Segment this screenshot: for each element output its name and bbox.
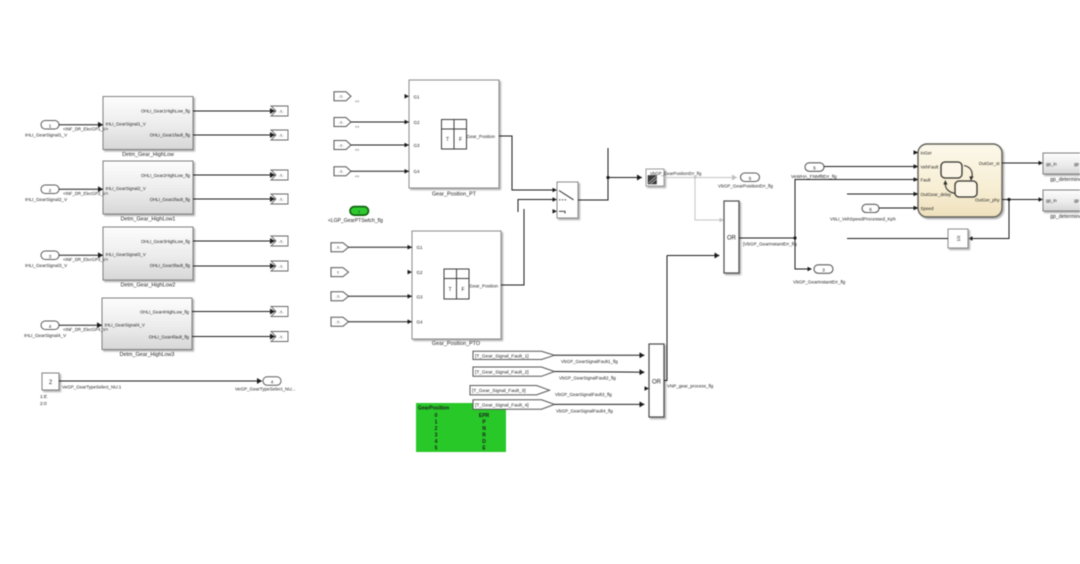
wire PTO G3	[349, 295, 413, 297]
svg-text:IHLI_GearSignal1_V: IHLI_GearSignal1_V	[106, 122, 146, 127]
svg-text:G2: G2	[417, 270, 424, 275]
wire inport3 to block3	[59, 255, 109, 262]
svg-text:GearPosition: GearPosition	[418, 406, 449, 412]
wire inport5 to chart VehFault	[824, 166, 914, 168]
state 1	[941, 162, 962, 178]
wire OR1 out	[739, 180, 914, 272]
svg-text:IHLI_GearSignal3_V: IHLI_GearSignal3_V	[25, 263, 68, 268]
svg-text:4: 4	[49, 324, 52, 329]
svg-text:-T-: -T-	[336, 294, 342, 299]
wire Gear_Position_PT out to switch in1	[499, 136, 553, 190]
svg-text:Detm_Gear_HighLow: Detm_Gear_HighLow	[122, 152, 174, 158]
svg-text:-T-: -T-	[279, 239, 285, 244]
svg-text:gp_determine: gp_determine	[1050, 177, 1080, 183]
svg-text:Detm_Gear_HighLow2: Detm_Gear_HighLow2	[121, 283, 176, 289]
wire block2 out2	[193, 198, 275, 200]
svg-text:N: N	[482, 426, 486, 432]
svg-text:-T-: -T-	[279, 310, 285, 315]
svg-text:VbGP_GearSignalFault2_flg: VbGP_GearSignalFault2_flg	[559, 376, 616, 381]
svg-text:[T_Gear_Signal_Fault_1]: [T_Gear_Signal_Fault_1]	[475, 353, 529, 359]
svg-text:1/z: 1/z	[956, 235, 961, 242]
svg-text:G4: G4	[414, 169, 421, 174]
wire fault1 to OR2	[555, 355, 645, 364]
subsystem Gear_Position_PTO	[412, 231, 501, 347]
svg-text:-T-: -T-	[279, 335, 285, 340]
subsystem Detm_Gear_HighLow1	[103, 161, 193, 223]
svg-text:<INF_DR_ElecGP4_V>: <INF_DR_ElecGP4_V>	[63, 327, 109, 332]
wire chart OutGer_phy to gp block2	[1002, 199, 1039, 201]
wire OutGear_delay into chart	[847, 193, 914, 195]
signal conversion block	[646, 169, 702, 186]
svg-text:IHLI_GearSignal2_V: IHLI_GearSignal2_V	[106, 186, 146, 191]
svg-text:<>: <>	[355, 148, 359, 152]
svg-text:VbGP_GearPositionErr_flg: VbGP_GearPositionErr_flg	[650, 171, 702, 176]
wire chart OutGer_st to gp block1	[1002, 162, 1039, 164]
svg-text:1:E: 1:E	[40, 394, 47, 400]
junction	[606, 176, 609, 179]
wire block4 out1	[192, 311, 275, 313]
from tag T (PTO G1)	[331, 243, 349, 252]
svg-text:Detm_Gear_HighLow1: Detm_Gear_HighLow1	[121, 217, 176, 223]
svg-text:InGer: InGer	[921, 151, 933, 156]
goto tag T (b2 out2)	[271, 194, 288, 204]
unit delay 1/z (flipped)	[948, 229, 968, 248]
goto tag T (b2 out1)	[271, 170, 288, 180]
icon inside Gear_Position_PTO	[444, 269, 469, 299]
wire block4 out2	[192, 336, 275, 338]
state 2	[955, 181, 977, 197]
svg-text:<LGP_GearPTSwtch_flg: <LGP_GearPTSwtch_flg	[328, 218, 383, 224]
svg-text:G1: G1	[417, 245, 424, 250]
wire fault2 to OR2	[555, 372, 645, 381]
svg-text:1: 1	[435, 420, 438, 426]
svg-text:VeWHA_FNMfltErr_flg: VeWHA_FNMfltErr_flg	[791, 174, 837, 179]
from tag T_Gear_Signal_Fault_1	[473, 351, 555, 359]
from tag T (PTO G2, unwired)	[331, 268, 349, 277]
from tag T (PT G2)	[334, 118, 359, 130]
wire PTO G4	[349, 321, 413, 323]
svg-text:R: R	[482, 433, 486, 439]
from tag T (PT G3)	[334, 141, 359, 153]
wire block3 out1	[193, 240, 275, 242]
wire inport4 to block4	[59, 325, 109, 332]
svg-text:Gear_Position_PT: Gear_Position_PT	[432, 192, 477, 198]
subsystem gp_determine 1	[1043, 153, 1080, 183]
svg-text:VNP_gear_process_flg: VNP_gear_process_flg	[667, 384, 714, 389]
svg-text:gp_determine: gp_determine	[1050, 214, 1080, 220]
wire fault4 to OR2	[555, 404, 645, 413]
svg-text:OHLI_Gear2HighLow_flg: OHLI_Gear2HighLow_flg	[141, 173, 191, 178]
svg-text:gp: gp	[1074, 198, 1079, 203]
svg-text:Speed: Speed	[921, 206, 935, 211]
svg-text:VbGP_GearSignalFault4_flg: VbGP_GearSignalFault4_flg	[556, 409, 613, 414]
svg-text:OR: OR	[652, 380, 662, 386]
svg-text:gp_in: gp_in	[1046, 198, 1057, 203]
svg-text:F: F	[461, 287, 464, 293]
svg-text:3: 3	[49, 254, 52, 259]
svg-text:IHLI_GearSignal1_V: IHLI_GearSignal1_V	[25, 133, 68, 138]
wire to OR1 lower input	[667, 255, 720, 257]
svg-text:OHLI_Gear3HighLow_flg: OHLI_Gear3HighLow_flg	[141, 239, 191, 244]
logical operator OR2	[645, 344, 714, 417]
svg-text:1: 1	[49, 123, 52, 128]
svg-text:<INF_DR_ElecGP3_V>: <INF_DR_ElecGP3_V>	[63, 257, 109, 262]
svg-text:-T-: -T-	[336, 245, 342, 250]
svg-text:OHLI_Gear2fault_flg: OHLI_Gear2fault_flg	[150, 197, 191, 202]
svg-text:G3: G3	[414, 143, 421, 148]
icon inside Gear_Position_PT	[442, 120, 467, 150]
svg-text:VbGP_GearSignalFault3_flg: VbGP_GearSignalFault3_flg	[555, 392, 612, 397]
svg-text:-T-: -T-	[339, 120, 345, 125]
svg-text:gp: gp	[1074, 161, 1079, 166]
svg-text:<>: <>	[355, 175, 359, 179]
faded junction	[694, 176, 697, 179]
inport 5 VeWHA_FNMfltErr	[791, 163, 837, 179]
svg-text:OutGear_delay: OutGear_delay	[921, 192, 952, 197]
svg-text:VbGP_GearPositionErr_flg: VbGP_GearPositionErr_flg	[718, 184, 773, 189]
svg-text:Gear_Position_PTO: Gear_Position_PTO	[432, 341, 480, 347]
wire PT G2	[351, 121, 409, 123]
from tag T (PT G1, unwired)	[334, 92, 359, 104]
wire OR2 out to OR1	[664, 256, 667, 381]
svg-text:[VbGP_GearInstantErr_flg: [VbGP_GearInstantErr_flg	[743, 242, 797, 247]
stateflow chart	[914, 144, 1003, 217]
svg-text:[T_Gear_Signal_Fault_2]: [T_Gear_Signal_Fault_2]	[475, 370, 529, 376]
svg-text:VtILI_VehSpeedProcessed_Kph: VtILI_VehSpeedProcessed_Kph	[830, 217, 896, 222]
svg-text:OutGer_st: OutGer_st	[979, 161, 1001, 166]
wire inport6 to chart Speed	[879, 207, 914, 209]
from tag T (PTO G3)	[331, 292, 349, 301]
svg-text:VbGP_GearInstantErr_flg: VbGP_GearInstantErr_flg	[793, 280, 846, 285]
svg-text:EPR: EPR	[479, 413, 490, 419]
svg-text:5: 5	[813, 166, 816, 171]
svg-text:5: 5	[749, 176, 752, 181]
outport 4 VeGP_GearTypeSelect	[235, 377, 296, 392]
subsystem Detm_Gear_HighLow	[103, 97, 193, 159]
svg-text:T: T	[446, 137, 449, 143]
svg-text:-T-: -T-	[339, 143, 345, 148]
svg-text:OHLI_Gear4HighLow_flg: OHLI_Gear4HighLow_flg	[140, 310, 190, 315]
goto tag T (b1 out1)	[271, 106, 288, 116]
svg-text:0: 0	[435, 413, 438, 419]
from tag T_Gear_Signal_Fault_4	[473, 400, 555, 409]
svg-text:2: 2	[49, 188, 52, 193]
svg-text:IHLI_GearSignal2_V: IHLI_GearSignal2_V	[25, 197, 68, 202]
svg-text:F: F	[459, 137, 462, 143]
svg-text:G2: G2	[414, 120, 421, 125]
svg-text:5: 5	[435, 446, 438, 452]
goto tag T (b4 out1)	[271, 307, 288, 317]
svg-text:<>: <>	[355, 100, 359, 104]
logical operator OR1	[724, 201, 739, 273]
svg-text:VeGP_GearTypeSelect_NU:1: VeGP_GearTypeSelect_NU:1	[62, 385, 122, 390]
svg-text:-T-: -T-	[279, 197, 285, 202]
wire block1 out2	[193, 134, 275, 136]
outport 3 VbGP_GearInstantErr	[793, 265, 846, 285]
svg-text:[T_Gear_Signal_Fault_3]: [T_Gear_Signal_Fault_3]	[472, 388, 526, 394]
wire PT G4	[351, 170, 409, 172]
goto tag T (b3 out1)	[271, 236, 288, 246]
svg-text:G1: G1	[414, 94, 421, 99]
wire block2 out1	[193, 174, 275, 176]
svg-text:4: 4	[271, 380, 274, 385]
inport 3 IHLI_GearSignal3_V	[25, 251, 68, 268]
svg-text:gp_in: gp_in	[1046, 161, 1057, 166]
svg-text:T: T	[448, 287, 451, 293]
svg-text:OutGer_phy: OutGer_phy	[975, 198, 1000, 203]
from tag LGP_GearPTSwtch (green)	[328, 207, 383, 224]
wire block1 out1	[193, 110, 275, 112]
svg-text:VbGP_GearSignalFault1_flg: VbGP_GearSignalFault1_flg	[561, 359, 618, 364]
svg-text:<>: <>	[355, 125, 359, 129]
svg-text:-T-: -T-	[339, 94, 345, 99]
svg-text:2: 2	[435, 426, 438, 432]
goto tag T (b4 out2)	[271, 332, 288, 342]
wire PT G3	[351, 144, 409, 146]
svg-text:[T_Gear_Signal_Fault_4]: [T_Gear_Signal_Fault_4]	[475, 402, 529, 408]
wire Gear_Position_PTO out (dangling)	[501, 209, 524, 285]
outport 5 VbGP_GearPositionErr	[718, 173, 773, 189]
from tag T_Gear_Signal_Fault_3 (unwired)	[470, 386, 612, 398]
inport 1 IHLI_GearSignal1_V	[25, 121, 68, 138]
subsystem Detm_Gear_HighLow2	[103, 227, 193, 289]
wire inport1 to block1	[59, 125, 109, 132]
wire switch out	[578, 148, 608, 200]
svg-text:G3: G3	[417, 294, 424, 299]
svg-text:OHLI_Gear1HighLow_flg: OHLI_Gear1HighLow_flg	[141, 109, 191, 114]
inport 4 IHLI_GearSignal4_V	[24, 321, 67, 338]
from tag T (PTO G4)	[331, 317, 349, 326]
port arrowheads Gear_Position_PTO	[408, 245, 413, 324]
goto tag T (b1 out2)	[271, 130, 288, 140]
wire block3 out2	[193, 265, 275, 267]
goto tag T (b3 out2)	[271, 261, 288, 271]
wire constant to outport4	[59, 381, 262, 390]
svg-text:3: 3	[822, 268, 825, 273]
feedback wire OutGer_phy to unit delay	[973, 200, 1010, 239]
svg-text:Gear_Position: Gear_Position	[467, 134, 496, 139]
svg-text:-T-: -T-	[279, 173, 285, 178]
transition arrows	[945, 166, 972, 194]
from tag T_Gear_Signal_Fault_2	[473, 367, 555, 376]
svg-text:VeGP_GearTypeSelect_NU...: VeGP_GearTypeSelect_NU...	[235, 387, 296, 392]
svg-text:OR: OR	[727, 236, 737, 242]
svg-text:OHLI_Gear4fault_flg: OHLI_Gear4fault_flg	[149, 335, 190, 340]
svg-text:Gear_Position: Gear_Position	[470, 284, 499, 289]
inport 6 VtILI_VehSpeedProcessed	[830, 204, 896, 221]
svg-text:6: 6	[869, 207, 872, 212]
wire PTO G1	[349, 246, 413, 248]
subsystem Detm_Gear_HighLow3	[102, 298, 192, 358]
from tag T (PT G4)	[334, 167, 359, 179]
constant 2	[40, 373, 59, 407]
svg-text:IHLI_GearSignal3_V: IHLI_GearSignal3_V	[106, 252, 146, 257]
port arrowheads Gear_Position_PT	[405, 94, 410, 174]
svg-text:-T-: -T-	[279, 109, 285, 114]
svg-text:IHLI_GearSignal4_V: IHLI_GearSignal4_V	[24, 333, 67, 338]
switch Switch1	[553, 182, 579, 218]
wire inport2 to block2	[59, 189, 109, 196]
subsystem Gear_Position_PT	[409, 80, 499, 198]
svg-text:-T-: -T-	[279, 264, 285, 269]
subsystem gp_determine 2	[1043, 190, 1080, 220]
svg-text:-T-: -T-	[336, 320, 342, 325]
svg-text:2:0: 2:0	[40, 401, 47, 407]
svg-text:4: 4	[435, 439, 438, 445]
svg-text:OHLI_Gear1fault_flg: OHLI_Gear1fault_flg	[150, 133, 191, 138]
svg-text:3: 3	[435, 433, 438, 439]
wire unit delay out	[847, 238, 948, 240]
svg-text:Detm_Gear_HighLow3: Detm_Gear_HighLow3	[120, 352, 175, 358]
wire switch control stub	[518, 200, 553, 213]
inport 2 IHLI_GearSignal2_V	[25, 185, 68, 202]
svg-text:<INF_DR_ElecGP2_V>: <INF_DR_ElecGP2_V>	[63, 191, 109, 196]
svg-text:<INF_DR_ElecGP1_V>: <INF_DR_ElecGP1_V>	[63, 127, 109, 132]
svg-text:Fault: Fault	[921, 178, 932, 183]
svg-text:VehFault: VehFault	[921, 165, 940, 170]
annotation table GearPosition (green)	[416, 403, 506, 452]
svg-text:D: D	[482, 439, 486, 445]
wire branch to conversion	[608, 177, 642, 179]
svg-text:G4: G4	[417, 320, 424, 325]
faded wire conversion to outport5	[664, 178, 737, 221]
svg-text:-T-: -T-	[339, 169, 345, 174]
svg-text:-T-: -T-	[279, 133, 285, 138]
svg-text:OHLI_Gear3fault_flg: OHLI_Gear3fault_flg	[150, 263, 191, 268]
svg-text:IHLI_GearSignal4_V: IHLI_GearSignal4_V	[105, 323, 145, 328]
